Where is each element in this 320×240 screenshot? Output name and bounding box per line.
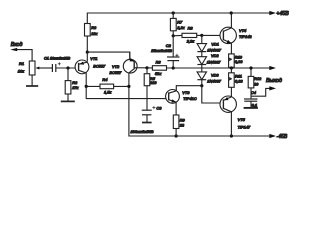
svg-text:VD3: VD3 <box>211 73 219 78</box>
svg-text:220: 220 <box>149 80 157 85</box>
diode VD3 1N4007 <box>197 72 222 86</box>
wire VD3 node to VT5 base <box>202 86 224 103</box>
svg-text:1,5к: 1,5к <box>104 89 111 94</box>
svg-text:TIP142: TIP142 <box>239 34 252 39</box>
node R8 / VD1 / VT4 base <box>200 34 203 37</box>
resistor R6 51к <box>147 59 167 76</box>
svg-text:1N4007: 1N4007 <box>207 48 222 53</box>
capacitor C1 10мкФх25В <box>44 56 71 72</box>
svg-text:10: 10 <box>254 82 259 87</box>
node R4 / VT2 collector <box>127 85 130 88</box>
svg-text:ВС557: ВС557 <box>110 70 123 75</box>
diode VD2 1N4007 <box>197 53 221 72</box>
wire VT3 collector to VD3 <box>176 86 202 91</box>
node VT2 base / R5 / R6 <box>145 66 148 69</box>
svg-text:TIP41C: TIP41C <box>183 96 196 101</box>
transistor VT5 TIP147 <box>220 96 251 136</box>
svg-text:22: 22 <box>179 123 185 128</box>
svg-text:VT4: VT4 <box>239 28 247 33</box>
node R3 / emitters <box>86 51 89 54</box>
svg-text:VD2: VD2 <box>211 53 219 58</box>
wire second output terminal <box>251 86 276 96</box>
wire emitters VT1-VT2 <box>87 52 130 60</box>
svg-text:R12: R12 <box>254 76 262 81</box>
svg-text:R8: R8 <box>188 26 194 31</box>
output terminal Выход <box>266 66 282 84</box>
svg-text:ВС557: ВС557 <box>93 64 106 69</box>
resistor R8 2,2к <box>173 26 202 44</box>
wire C1 to VT1 base <box>56 67 79 69</box>
node C1 / R2 / VT1 base <box>66 66 69 69</box>
transistor VT3 TIP41C <box>166 90 197 116</box>
svg-text:R7: R7 <box>177 19 183 24</box>
svg-text:R11: R11 <box>235 73 242 78</box>
capacitor C4 0,1 <box>244 90 258 108</box>
terminal +45В <box>269 11 289 17</box>
node top rail / VT4 collector <box>230 11 233 14</box>
svg-text:0,1: 0,1 <box>252 102 257 107</box>
capacitor C2 15мкФх63В <box>151 36 179 68</box>
svg-text:0,33: 0,33 <box>235 79 243 84</box>
svg-text:0,33: 0,33 <box>235 59 243 64</box>
resistor R7 2,2к <box>170 13 184 36</box>
svg-text:VD1: VD1 <box>211 42 219 47</box>
diode VD1 1N4007 <box>197 35 222 56</box>
svg-text:VT5: VT5 <box>238 117 246 122</box>
svg-text:+45В: +45В <box>276 11 289 17</box>
node top rail / R7 <box>172 11 175 14</box>
svg-text:2,2к: 2,2к <box>176 25 184 30</box>
node R4 / VT1 collector <box>85 85 88 88</box>
resistor R5 220 <box>144 68 157 110</box>
svg-text:10к: 10к <box>18 68 24 73</box>
svg-text:>: > <box>229 77 231 81</box>
resistor R1 (potentiometer 10к) <box>18 61 53 86</box>
wire bottom -45V rail <box>129 86 270 136</box>
svg-text:VT1: VT1 <box>90 56 97 61</box>
svg-text:VT2: VT2 <box>112 64 120 69</box>
transistor VT2 BC557 <box>110 52 148 86</box>
ground (C3) <box>142 122 152 124</box>
svg-text:С1 10мкФх25В: С1 10мкФх25В <box>44 56 71 60</box>
svg-text:Вход: Вход <box>11 42 23 48</box>
node bottom rail / R9 <box>175 134 178 137</box>
svg-text:С3: С3 <box>156 105 162 110</box>
svg-text:2,2к: 2,2к <box>186 39 194 44</box>
svg-text:-45В: -45В <box>277 134 288 140</box>
capacitor C3 100мкФх50В <box>131 105 163 133</box>
svg-text:Выход: Выход <box>266 78 282 84</box>
ground (C4) <box>244 107 258 109</box>
node R10 / R11 / output <box>230 66 233 69</box>
transistor VT4 TIP142 <box>220 13 252 54</box>
svg-text:51к: 51к <box>155 71 161 76</box>
svg-text:1N4007: 1N4007 <box>207 60 222 65</box>
resistor R12 10 <box>248 68 262 99</box>
svg-text:VT3: VT3 <box>182 90 190 95</box>
svg-text:TIP147: TIP147 <box>238 125 251 130</box>
resistor R9 22 <box>173 115 185 136</box>
node bottom rail / VT5 collector <box>230 134 233 137</box>
input terminal Вход <box>10 42 32 61</box>
node R6 / C2 <box>172 66 175 69</box>
svg-text:R4: R4 <box>102 77 108 82</box>
resistor R10 0,33 <box>229 54 244 68</box>
wire R8 node to VT4 base <box>202 34 224 36</box>
resistor R4 1,5к <box>86 77 129 94</box>
svg-text:>: > <box>229 58 231 62</box>
svg-text:1N4007: 1N4007 <box>207 79 222 84</box>
wire top +45V rail <box>87 13 269 24</box>
wire VT1 collector to VT3 base <box>86 86 169 98</box>
resistor R3 22к <box>85 24 98 53</box>
terminal -45В <box>269 134 288 140</box>
node VD3 / VT3 collector / VT5 base <box>200 84 203 87</box>
svg-text:22к: 22к <box>90 31 97 36</box>
wire R6 to output node <box>167 67 270 69</box>
svg-text:R6: R6 <box>156 59 162 64</box>
svg-text:R3: R3 <box>91 25 97 30</box>
resistor R11 0,33 <box>229 68 244 97</box>
node R7 / R8 / C2 <box>172 34 175 37</box>
svg-text:100мкФх50В: 100мкФх50В <box>131 129 154 134</box>
svg-text:27к: 27к <box>71 85 78 90</box>
ground (R1) <box>26 85 38 87</box>
ground (R2) <box>61 100 75 102</box>
svg-text:С4: С4 <box>251 90 257 95</box>
svg-text:15мкФх63В: 15мкФх63В <box>151 48 172 53</box>
svg-text:R1: R1 <box>19 61 24 66</box>
resistor R2 27к <box>65 68 78 101</box>
node R12 / output <box>249 66 252 69</box>
transistor VT1 BC557 <box>75 52 106 86</box>
